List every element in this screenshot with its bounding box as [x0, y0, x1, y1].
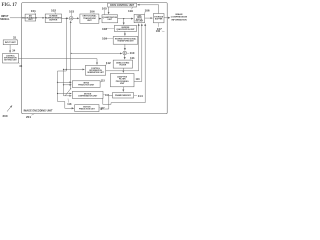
svg-text:BUFFER: BUFFER — [49, 19, 57, 21]
wire distribution lower rail — [58, 70, 67, 72]
svg-text:114: 114 — [138, 94, 143, 98]
wire motion info to lossless encoding 106 — [144, 24, 146, 103]
wire output compressed info — [164, 17, 170, 19]
svg-text:BUFFER: BUFFER — [155, 19, 163, 21]
svg-text:118: 118 — [67, 103, 72, 106]
wire rail A to intra 115 — [58, 81, 72, 83]
svg-text:103: 103 — [69, 9, 74, 13]
wire 33 to 112 — [18, 59, 97, 65]
svg-text:200: 200 — [3, 114, 8, 118]
wire prediction common line to adder 103 — [70, 21, 72, 89]
block motion compensation unit 116 — [72, 91, 103, 98]
wire input image branch from 102 line — [66, 18, 67, 19]
device pointer arrow 200 — [7, 106, 12, 112]
svg-text:101: 101 — [31, 9, 36, 13]
svg-text:UNIT: UNIT — [120, 83, 125, 85]
wire prediction into 110 — [71, 52, 122, 54]
block motion prediction unit 117 — [75, 105, 99, 112]
svg-text:QUANTIZATION UNIT: QUANTIZATION UNIT — [116, 28, 135, 31]
wire frame memory 114 to motion prediction 117 — [100, 95, 113, 109]
svg-text:104: 104 — [90, 9, 95, 13]
wire 105 output down to 108 — [123, 19, 125, 25]
svg-text:UNIT: UNIT — [28, 19, 33, 21]
svg-text:COMPENSATION UNIT: COMPENSATION UNIT — [78, 94, 98, 97]
svg-text:COMPRESSION: COMPRESSION — [171, 17, 187, 19]
wire 108 to 109 — [124, 31, 126, 35]
block adaptive filter processing unit 113 — [110, 74, 134, 87]
wire 104 to 105 — [99, 18, 101, 20]
block inverse orthogonal transform unit 109 — [113, 37, 138, 45]
block deblocking filter 111 — [113, 60, 132, 68]
block control information generation unit 112 — [85, 65, 105, 75]
wire input unit to setting unit 34 — [9, 45, 11, 53]
svg-text:UNIT: UNIT — [108, 19, 113, 21]
svg-text:117: 117 — [101, 107, 106, 110]
svg-text:ING UNIT: ING UNIT — [136, 21, 144, 23]
svg-text:PREDICTION UNIT: PREDICTION UNIT — [79, 109, 96, 111]
wire vertical rail B — [64, 69, 72, 95]
block orthogonal transform unit 104 — [80, 14, 99, 23]
block storage buffer 107 — [153, 14, 164, 23]
adder 110 — [123, 51, 127, 55]
svg-text:112: 112 — [106, 61, 111, 65]
svg-text:SETTING UNIT: SETTING UNIT — [4, 59, 17, 61]
wire 109 to adder 110 — [124, 44, 126, 50]
svg-text:110: 110 — [130, 51, 135, 55]
wire input to A/D — [10, 17, 24, 19]
svg-text:100: 100 — [156, 29, 161, 33]
svg-text:IMAGE ENCODING UNIT: IMAGE ENCODING UNIT — [24, 109, 53, 112]
svg-text:FRAME MEMORY: FRAME MEMORY — [115, 94, 132, 97]
svg-text:GENERATION UNIT: GENERATION UNIT — [87, 71, 104, 74]
svg-text:115: 115 — [101, 79, 106, 82]
svg-text:109: 109 — [102, 36, 107, 40]
svg-text:106: 106 — [145, 9, 150, 13]
wire 107 to 119 feedback — [138, 5, 159, 14]
svg-text:INFORMATION: INFORMATION — [171, 18, 187, 21]
svg-text:FIG. 17: FIG. 17 — [2, 3, 18, 8]
wire 119 to 105 — [108, 7, 110, 14]
wire 112 to lossless encoding 106 — [106, 24, 139, 71]
svg-text:UNIT: UNIT — [87, 20, 92, 22]
svg-text:TRANSFORM UNIT: TRANSFORM UNIT — [117, 40, 134, 43]
block A/D conversion unit 101 — [25, 14, 36, 21]
wire vertical rail A — [58, 71, 74, 108]
svg-text:IMAGE: IMAGE — [175, 13, 183, 16]
svg-text:108: 108 — [102, 27, 107, 31]
svg-text:SIGNAL: SIGNAL — [0, 18, 10, 21]
wire rail B to intra 115 — [64, 84, 72, 86]
adder 103 — [69, 16, 73, 20]
wire motion comp junction down — [103, 98, 145, 104]
block inverse quantization unit 108 — [114, 26, 136, 32]
svg-text:105: 105 — [102, 7, 107, 11]
block frame memory 114 — [113, 93, 134, 99]
wire 102 to adder 103 — [62, 17, 69, 19]
svg-text:113: 113 — [136, 78, 141, 81]
wire 111 to 113 — [122, 68, 124, 72]
svg-text:PREDICTION UNIT: PREDICTION UNIT — [78, 85, 95, 87]
wire rail A to motion comp 116 — [58, 93, 72, 95]
wire 110 to 111 — [124, 55, 126, 59]
svg-text:33: 33 — [19, 64, 22, 68]
junction quantized data feedback — [123, 18, 124, 19]
wire 106 to 107 — [145, 17, 153, 19]
block control information setting unit 33 — [3, 54, 19, 64]
svg-text:34: 34 — [12, 48, 15, 52]
wire 105 to 106 — [118, 18, 134, 20]
block input unit 32 — [3, 40, 17, 45]
outer box image encoding unit 112 — [22, 3, 168, 114]
block quantization unit 105 — [102, 15, 118, 23]
wire 103 to 104 — [73, 17, 79, 19]
svg-text:INPUT UNIT: INPUT UNIT — [5, 42, 17, 44]
svg-text:111: 111 — [130, 56, 135, 60]
wire 113 to lossless encoding 106 — [134, 24, 142, 82]
block screen rearrangement buffer 102 — [45, 14, 61, 23]
block intra prediction unit 115 — [72, 81, 100, 88]
wire 113 to 114 — [122, 87, 124, 92]
selector switch 118 — [65, 89, 71, 96]
svg-text:119: 119 — [128, 9, 133, 13]
block lossless encoding unit 106 — [134, 14, 145, 22]
svg-text:RATE CONTROL UNIT: RATE CONTROL UNIT — [110, 4, 135, 7]
wire distribution into 112 left — [64, 68, 85, 70]
svg-text:FILTER: FILTER — [119, 65, 126, 67]
svg-text:201: 201 — [26, 115, 31, 119]
svg-text:102: 102 — [51, 9, 56, 13]
block rate control unit 119 — [108, 3, 137, 7]
wire 101 to 102 — [36, 17, 45, 19]
